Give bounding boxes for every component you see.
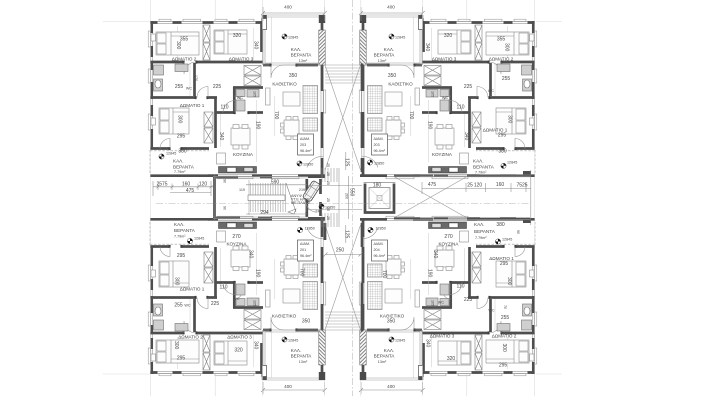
svg-text:247: 247	[315, 210, 321, 214]
svg-text:295: 295	[177, 134, 186, 140]
svg-text:ΒΕΡΑΝΤΑ: ΒΕΡΑΝΤΑ	[291, 354, 313, 359]
svg-text:295: 295	[177, 356, 186, 362]
svg-text:ΚΑΘΙΣΤΙΚΟ: ΚΑΘΙΣΤΙΚΟ	[388, 82, 413, 87]
svg-text:225: 225	[213, 84, 222, 90]
svg-text:700: 700	[273, 111, 279, 120]
svg-text:ΒΕΡΑΝΤΑ: ΒΕΡΑΝΤΑ	[291, 53, 313, 58]
svg-text:340: 340	[253, 41, 259, 50]
svg-text:ΚΟΥΖΙΝΑ: ΚΟΥΖΙΝΑ	[233, 152, 254, 157]
svg-text:ΚΑΛ.: ΚΑΛ.	[173, 159, 183, 164]
svg-text:7.79m²: 7.79m²	[475, 171, 487, 175]
svg-text:400: 400	[387, 384, 395, 389]
svg-text:ΔΩΜΑΤΙΟ 3: ΔΩΜΑΤΙΟ 3	[229, 57, 254, 62]
svg-text:13m²: 13m²	[378, 360, 387, 364]
svg-text:ΚΑΛ.: ΚΑΛ.	[384, 47, 394, 52]
svg-text:ΔΩΜΑΤΙΟ 2: ΔΩΜΑΤΙΟ 2	[489, 57, 514, 62]
svg-text:ΚΑΘΙΣΤΙΚΟ: ΚΑΘΙΣΤΙΚΟ	[380, 314, 405, 319]
svg-text:105: 105	[431, 300, 435, 306]
svg-text:700: 700	[299, 268, 305, 277]
svg-text:25: 25	[326, 216, 330, 220]
svg-text:380: 380	[498, 149, 507, 155]
svg-text:WC: WC	[186, 87, 192, 91]
svg-text:ΚΑΛ.: ΚΑΛ.	[384, 348, 394, 353]
svg-text:255: 255	[175, 84, 184, 90]
svg-text:105: 105	[253, 300, 257, 306]
svg-text:ΔΙΑΜ.: ΔΙΑΜ.	[300, 242, 310, 246]
svg-text:190: 190	[427, 269, 433, 278]
svg-text:119: 119	[239, 188, 245, 192]
svg-text:ΚΑΛ.: ΚΑΛ.	[474, 222, 484, 227]
svg-text:ΔΩΜΑΤΙΟ 1: ΔΩΜΑΤΙΟ 1	[180, 287, 205, 292]
svg-text:475: 475	[428, 182, 437, 188]
svg-text:ΔΩΜΑΤΙΟ 1: ΔΩΜΑΤΙΟ 1	[489, 256, 514, 261]
svg-text:WC: WC	[184, 304, 190, 308]
svg-text:590: 590	[271, 180, 280, 186]
svg-text:320: 320	[234, 348, 243, 354]
svg-text:120: 120	[474, 183, 483, 189]
svg-text:ΒΕΡΑΝΤΑ: ΒΕΡΑΝΤΑ	[473, 164, 495, 169]
svg-text:320: 320	[444, 33, 453, 39]
svg-text:255: 255	[501, 315, 510, 321]
svg-text:340: 340	[424, 43, 430, 52]
svg-text:300: 300	[501, 344, 507, 353]
svg-text:13m²: 13m²	[299, 59, 308, 63]
svg-text:300: 300	[504, 43, 510, 52]
svg-text:160: 160	[182, 182, 191, 188]
svg-text:400: 400	[284, 4, 292, 9]
svg-text:110: 110	[220, 285, 228, 291]
svg-text:WC: WC	[442, 96, 448, 100]
svg-text:12850: 12850	[303, 163, 313, 167]
svg-text:ΔΩΜΑΤΙΟ 1: ΔΩΜΑΤΙΟ 1	[180, 103, 205, 108]
svg-text:ΔΩΜΑΤΙΟ 3: ΔΩΜΑΤΙΟ 3	[432, 57, 457, 62]
svg-text:7.79m²: 7.79m²	[475, 236, 487, 240]
svg-text:340: 340	[463, 132, 469, 141]
svg-text:125: 125	[344, 158, 350, 167]
svg-text:225: 225	[211, 301, 220, 307]
svg-text:203: 203	[300, 143, 306, 147]
svg-text:340: 340	[248, 250, 254, 259]
svg-text:25: 25	[326, 181, 330, 185]
svg-text:120: 120	[199, 182, 208, 188]
svg-text:400: 400	[387, 4, 395, 9]
svg-text:255: 255	[174, 303, 183, 309]
svg-text:7525: 7525	[516, 183, 527, 189]
svg-text:225: 225	[464, 84, 473, 90]
svg-text:340: 340	[218, 132, 224, 141]
svg-text:105: 105	[253, 91, 257, 97]
svg-text:201: 201	[300, 248, 306, 252]
svg-text:12845: 12845	[395, 36, 405, 40]
svg-text:ΚΑΛ.: ΚΑΛ.	[291, 47, 301, 52]
svg-text:96.4m²: 96.4m²	[300, 149, 312, 153]
svg-text:ΒΕΡΑΝΤΑ: ΒΕΡΑΝΤΑ	[374, 354, 396, 359]
svg-text:ΔΩΜΑΤΙΟ 3: ΔΩΜΑΤΙΟ 3	[430, 334, 455, 339]
svg-text:400: 400	[284, 384, 292, 389]
svg-text:250: 250	[336, 248, 345, 254]
svg-text:12845: 12845	[288, 36, 298, 40]
svg-text:WC: WC	[438, 301, 444, 305]
svg-text:190: 190	[427, 121, 433, 130]
svg-text:7.79m²: 7.79m²	[174, 170, 186, 174]
svg-text:13m²: 13m²	[378, 59, 387, 63]
svg-text:225: 225	[464, 297, 473, 303]
svg-text:350: 350	[387, 319, 396, 325]
svg-text:294: 294	[260, 210, 269, 216]
svg-text:380: 380	[178, 149, 187, 155]
svg-text:475: 475	[186, 188, 195, 194]
svg-text:190: 190	[255, 121, 261, 130]
svg-text:ΔΩΜΑΤΙΟ 2: ΔΩΜΑΤΙΟ 2	[492, 334, 517, 339]
svg-text:12850: 12850	[376, 227, 386, 231]
svg-text:180: 180	[373, 183, 382, 189]
svg-text:200: 200	[345, 193, 349, 199]
svg-text:ΔΩΜΑΤΙΟ 2: ΔΩΜΑΤΙΟ 2	[172, 57, 197, 62]
svg-text:300: 300	[507, 115, 513, 124]
svg-text:ΚΟΥΖΙΝΑ: ΚΟΥΖΙΝΑ	[227, 242, 248, 247]
svg-text:320: 320	[233, 33, 242, 39]
svg-text:12845: 12845	[288, 339, 298, 343]
svg-text:25: 25	[326, 172, 330, 176]
svg-text:ΒΕΡΑΝΤΑ: ΒΕΡΑΝΤΑ	[173, 164, 195, 169]
svg-text:90: 90	[516, 230, 520, 234]
svg-text:110: 110	[457, 284, 465, 290]
svg-text:90: 90	[223, 206, 227, 210]
svg-text:12845: 12845	[194, 237, 204, 241]
svg-text:ΒΕΡΑΝΤΑ: ΒΕΡΑΝΤΑ	[174, 228, 196, 233]
svg-text:WC: WC	[488, 89, 494, 93]
svg-text:355: 355	[180, 37, 189, 43]
svg-text:550: 550	[349, 188, 355, 197]
svg-text:350: 350	[289, 73, 298, 79]
svg-text:295: 295	[498, 133, 507, 139]
svg-text:ΚΑΘΙΣΤΙΚΟ: ΚΑΘΙΣΤΙΚΟ	[272, 314, 297, 319]
svg-text:ΜΕ ΠΛΑΤΦ.: ΜΕ ΠΛΑΤΦ.	[291, 201, 311, 205]
svg-text:300: 300	[506, 277, 512, 286]
svg-text:295: 295	[177, 253, 186, 259]
svg-text:700: 700	[381, 270, 387, 279]
svg-text:96.4m²: 96.4m²	[300, 254, 312, 258]
svg-text:125: 125	[344, 230, 350, 239]
svg-text:255: 255	[502, 76, 511, 82]
svg-text:204: 204	[374, 248, 380, 252]
svg-text:13m²: 13m²	[299, 360, 308, 364]
svg-text:190: 190	[255, 269, 261, 278]
svg-text:12850: 12850	[325, 206, 335, 210]
svg-text:160: 160	[496, 182, 505, 188]
svg-text:25: 25	[467, 183, 473, 189]
svg-text:ΚΟΥΖΙΝΑ: ΚΟΥΖΙΝΑ	[439, 242, 460, 247]
svg-text:219: 219	[299, 188, 305, 192]
svg-text:ΔΙΑΜ.: ΔΙΑΜ.	[300, 137, 310, 141]
svg-text:2575: 2575	[156, 182, 167, 188]
svg-text:300: 300	[173, 341, 179, 350]
svg-text:300: 300	[177, 115, 183, 124]
svg-text:300: 300	[175, 41, 181, 50]
svg-text:25: 25	[326, 163, 330, 167]
svg-text:ΚΑΛ.: ΚΑΛ.	[473, 159, 483, 164]
svg-text:350: 350	[388, 73, 397, 79]
svg-text:96.4m²: 96.4m²	[374, 149, 386, 153]
svg-text:12845: 12845	[502, 238, 512, 242]
svg-text:WC: WC	[488, 309, 494, 313]
svg-text:96.4m²: 96.4m²	[374, 254, 386, 258]
svg-text:ΔΙΑΜ.: ΔΙΑΜ.	[374, 242, 384, 246]
svg-text:340: 340	[253, 341, 259, 350]
svg-text:12845: 12845	[395, 339, 405, 343]
svg-text:25: 25	[326, 198, 330, 202]
svg-text:ΔΙΑΜ.: ΔΙΑΜ.	[374, 137, 384, 141]
svg-text:700: 700	[408, 111, 414, 120]
svg-text:380: 380	[496, 222, 505, 228]
svg-text:WC: WC	[237, 96, 243, 100]
svg-text:203: 203	[374, 143, 380, 147]
svg-text:110: 110	[221, 105, 229, 111]
svg-text:ΚΑΛ.: ΚΑΛ.	[174, 222, 184, 227]
svg-text:WC: WC	[233, 297, 239, 301]
svg-text:ΒΕΡΑΝΤΑ: ΒΕΡΑΝΤΑ	[474, 229, 496, 234]
svg-text:70: 70	[503, 305, 507, 309]
svg-text:105: 105	[431, 91, 435, 97]
svg-text:12850: 12850	[305, 227, 315, 231]
svg-text:7.79m²: 7.79m²	[174, 235, 186, 239]
svg-text:ΔΩΜΑΤΙΟ 2: ΔΩΜΑΤΙΟ 2	[178, 335, 203, 340]
svg-text:110: 110	[457, 105, 465, 111]
svg-text:320: 320	[447, 356, 456, 362]
svg-text:ΔΩΜΑΤΙΟ 1: ΔΩΜΑΤΙΟ 1	[483, 128, 508, 133]
svg-text:ΚΑΘΙΣΤΙΚΟ: ΚΑΘΙΣΤΙΚΟ	[272, 82, 297, 87]
svg-text:12845: 12845	[166, 152, 176, 156]
svg-text:12845: 12845	[507, 161, 517, 165]
svg-text:295: 295	[500, 261, 509, 267]
svg-text:12850: 12850	[374, 162, 384, 166]
svg-text:270: 270	[232, 234, 241, 240]
svg-text:ΚΑΛ.: ΚΑΛ.	[291, 348, 301, 353]
svg-text:90: 90	[223, 179, 227, 183]
svg-text:355: 355	[497, 37, 506, 43]
svg-text:ΔΩΜΑΤΙΟ 3: ΔΩΜΑΤΙΟ 3	[227, 335, 252, 340]
svg-text:270: 270	[444, 234, 453, 240]
svg-text:340: 340	[425, 339, 431, 348]
svg-text:295: 295	[499, 363, 508, 369]
svg-text:ΒΕΡΑΝΤΑ: ΒΕΡΑΝΤΑ	[374, 53, 396, 58]
svg-text:350: 350	[302, 319, 311, 325]
svg-text:170: 170	[194, 75, 198, 81]
svg-text:300: 300	[174, 277, 180, 286]
svg-text:ΚΟΥΖΙΝΑ: ΚΟΥΖΙΝΑ	[432, 152, 453, 157]
svg-text:340: 340	[432, 250, 438, 259]
